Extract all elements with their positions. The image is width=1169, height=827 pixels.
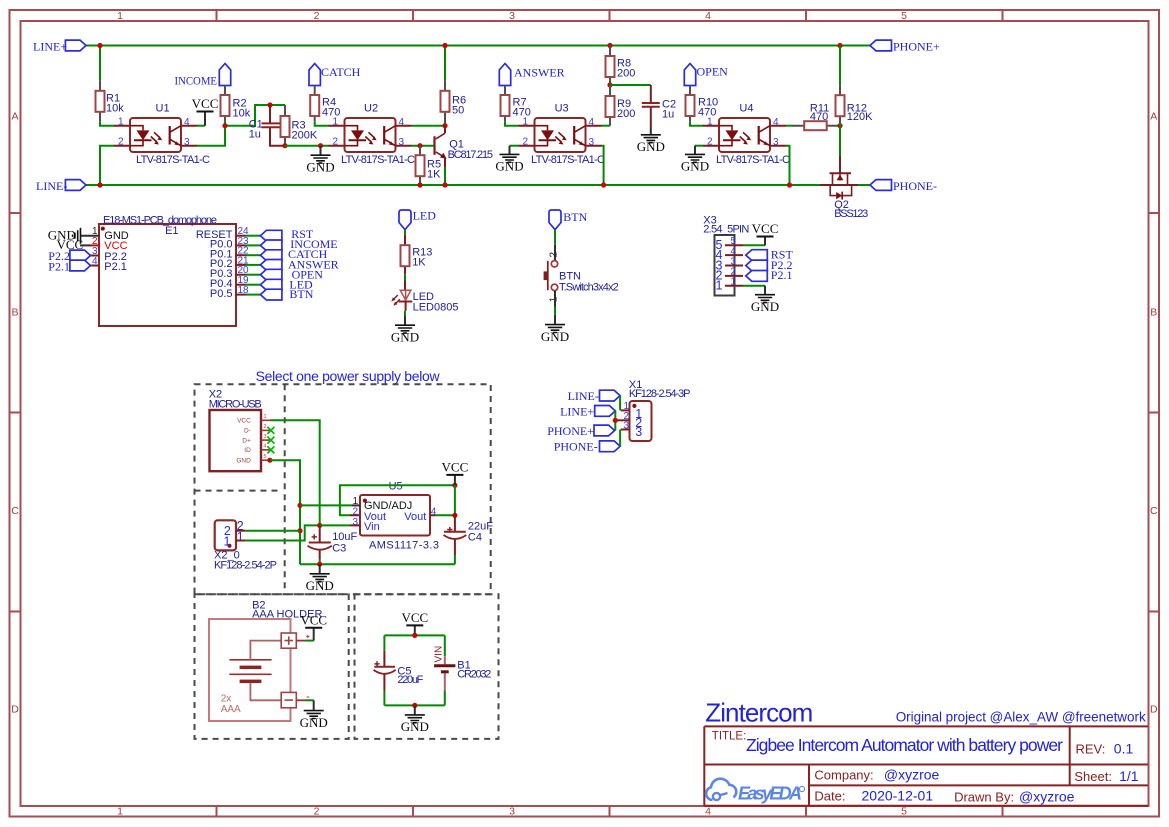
svg-text:B: B (11, 307, 18, 319)
pin 1 (X3) (716, 277, 743, 293)
wire R1 to U1 pin1 (100, 122, 115, 126)
flag PHONE- (X1) (554, 440, 620, 454)
junction VCC (B1/C5) (412, 633, 417, 638)
svg-text:1: 1 (716, 279, 723, 293)
flag OPEN (E1) (260, 268, 323, 282)
pin 2 (X1) (616, 411, 630, 422)
resistor R12 (836, 85, 874, 123)
flag PHONE+ (870, 40, 940, 54)
svg-text:U5: U5 (389, 481, 403, 493)
pin 3 P2.2 (E1) (86, 246, 127, 263)
wire LINE+/PHONE+ vertical (614, 411, 616, 431)
flag LINE+ (X1) (560, 405, 615, 419)
svg-text:P0.5: P0.5 (210, 288, 233, 300)
svg-text:3: 3 (635, 425, 642, 439)
junction VCC top (452, 483, 457, 488)
wire U3 pin3 down to LINE- (602, 146, 604, 185)
wire LINE+ rail (86, 45, 870, 47)
junction LINE+/R1col (97, 43, 102, 48)
pin 19 P0.4 (E1) (210, 275, 261, 290)
svg-text:U1: U1 (156, 103, 170, 115)
junction C4 top (452, 513, 457, 518)
svg-text:4: 4 (731, 246, 737, 257)
wire U4 pin4 to R11 (786, 125, 792, 127)
pin 24 RESET (E1) (196, 226, 261, 241)
svg-text:C: C (11, 505, 19, 517)
svg-text:18: 18 (238, 285, 250, 296)
capacitor C2 (642, 85, 676, 128)
svg-text:INCOME: INCOME (175, 73, 218, 87)
junction gnd wire / X2_0 pin2 (297, 528, 302, 533)
wire U4 pin2 to ground (695, 145, 703, 147)
power VCC (B1/C5) (401, 610, 428, 636)
dashed box B1/C5 (355, 594, 499, 739)
svg-text:1: 1 (237, 530, 244, 544)
no-connect X (X2) (267, 427, 274, 434)
svg-text:Company:: Company: (814, 767, 873, 782)
ground (B1/C5) (401, 705, 429, 734)
ground (power rail) (306, 564, 334, 593)
junction X1 pin2 (613, 418, 618, 423)
flag P2.1 (48, 259, 90, 273)
resistor R2 (221, 86, 251, 122)
svg-text:MICRO-USB: MICRO-USB (209, 399, 262, 411)
wire X2_0 pin2 (245, 530, 300, 532)
svg-text:200: 200 (617, 68, 635, 80)
junction collector node (442, 123, 447, 128)
pin 22 P0.1 (E1) (210, 246, 261, 261)
svg-text:2: 2 (314, 806, 320, 818)
junction below R2 (222, 123, 227, 128)
junction GND (B1/C5) (412, 703, 417, 708)
svg-text:1: 1 (117, 10, 123, 22)
svg-text:CATCH: CATCH (321, 65, 361, 79)
pin 5 GND (X2) (236, 454, 270, 464)
resistor R9 (606, 85, 636, 126)
flag LED (E1) (260, 278, 313, 292)
svg-text:2020-12-01: 2020-12-01 (862, 788, 934, 804)
pin 21 P0.2 (E1) (210, 255, 261, 270)
svg-text:VCC: VCC (237, 418, 251, 425)
ground (U4 pin2) (681, 146, 709, 174)
wire R4 to U2 pin1 (315, 122, 329, 126)
svg-text:ID: ID (244, 447, 251, 454)
svg-text:B: B (1150, 307, 1157, 319)
svg-text:Zintercom: Zintercom (705, 697, 813, 727)
svg-text:1: 1 (223, 535, 230, 549)
pin 4 ID (X2) (244, 444, 270, 454)
svg-text:BTN: BTN (563, 210, 587, 224)
junction C3/gnd rail (317, 562, 322, 567)
svg-text:1u: 1u (662, 109, 674, 121)
svg-text:2.54_5PIN: 2.54_5PIN (703, 224, 749, 236)
connector X3 2.54_5PIN (703, 214, 749, 295)
svg-text:C: C (1150, 505, 1158, 517)
wire C5 to bottom rail (383, 691, 385, 706)
wire bottom rail (B1/C5) (384, 704, 444, 706)
pin 1 (X2_0) (236, 540, 245, 542)
svg-text:D: D (11, 704, 19, 716)
svg-text:3: 3 (509, 806, 515, 818)
wire LED to ground (404, 311, 406, 316)
svg-text:1/1: 1/1 (1119, 768, 1139, 784)
svg-text:T.Switch3x4x2: T.Switch3x4x2 (559, 282, 619, 294)
pin 5 (X3) (716, 236, 743, 252)
flag PHONE+ (X1) (547, 424, 614, 438)
svg-text:1: 1 (117, 806, 123, 818)
capacitor C4 (444, 515, 494, 555)
svg-text:LINE+: LINE+ (560, 405, 594, 419)
svg-text:P2.1: P2.1 (48, 259, 70, 273)
svg-text:GND/ADJ: GND/ADJ (364, 500, 412, 512)
ground (LED) (391, 316, 419, 345)
capacitor C1 (249, 105, 283, 146)
junction LINE-/U1col (97, 182, 102, 187)
svg-text:5: 5 (901, 806, 907, 818)
svg-text:PHONE+: PHONE+ (547, 424, 594, 438)
svg-text:PHONE+: PHONE+ (893, 40, 940, 54)
resistor R4 (310, 86, 340, 122)
resistor R1 (96, 80, 125, 121)
svg-text:2: 2 (314, 10, 320, 22)
svg-text:4: 4 (264, 444, 267, 450)
junction X2 pin5 (267, 458, 272, 463)
flag P2.2 (X3) (746, 258, 793, 272)
power VCC (X3) (752, 221, 779, 245)
wire U2 pin3 to Q1 base (412, 145, 434, 147)
flag LINE- (36, 179, 86, 193)
junction LINE+/R12 (837, 43, 842, 48)
svg-text:A: A (1150, 111, 1157, 123)
svg-text:1: 1 (731, 277, 737, 288)
junction C1 top (267, 102, 272, 107)
connector X2_0 KF128-2.54-2P (214, 519, 277, 572)
wire Vin node to U5 pin3 (320, 524, 350, 526)
capacitor C5 (374, 651, 424, 691)
wire LINE+ to R6 (444, 46, 446, 81)
wire C3 to gnd rail (319, 559, 321, 564)
svg-text:LED: LED (413, 209, 437, 223)
junction gnd wire / U5 adj (297, 503, 302, 508)
svg-text:2: 2 (352, 506, 358, 517)
svg-text:PHONE-: PHONE- (554, 440, 598, 454)
svg-text:4: 4 (705, 806, 711, 818)
text Date (814, 788, 933, 804)
pin 2 VCC (E1) (57, 236, 128, 252)
terminal + (B2) (281, 633, 309, 648)
junction Q1/LINE- (442, 182, 447, 187)
junction U3pin3/LINE- (601, 182, 606, 187)
wire X3 pin5 to VCC (743, 244, 765, 246)
pin 20 P0.3 (E1) (210, 265, 261, 280)
flag LINE- (X1) (568, 389, 621, 403)
pin 1 (X1) (621, 401, 630, 412)
svg-text:3: 3 (623, 420, 629, 431)
battery B1 CR2032 (434, 646, 492, 691)
svg-text:E18-MS1-PCB_domophone: E18-MS1-PCB_domophone (103, 215, 217, 227)
title block (704, 726, 1148, 805)
wire node to C1/R3 (225, 105, 285, 126)
wire R2 to junction (224, 122, 226, 126)
flag CATCH (E1) (260, 247, 327, 261)
svg-text:10uF: 10uF (332, 531, 357, 543)
svg-text:LTV-817S-TA1-C: LTV-817S-TA1-C (716, 154, 790, 166)
svg-text:2: 2 (549, 252, 560, 258)
wire B1 branch (444, 635, 446, 656)
svg-text:BSS123: BSS123 (834, 208, 868, 220)
wire U1 pin2 to LINE- (100, 146, 115, 185)
wire C5 branch (383, 635, 385, 650)
wire PHONE- to pin3 (619, 430, 621, 447)
optocoupler U2 (329, 103, 416, 166)
flag LED (399, 209, 436, 230)
ground (BTN) (541, 315, 569, 344)
resistor R3 (281, 105, 318, 146)
resistor R8 (606, 46, 636, 81)
regulator U5 AMS1117-3.3 (350, 481, 439, 552)
svg-text:0.1: 0.1 (1114, 740, 1134, 756)
wire Q2 to PHONE- (858, 184, 870, 186)
svg-text:U2: U2 (364, 103, 378, 115)
ground (X3) (751, 286, 779, 314)
svg-text:U3: U3 (555, 103, 569, 115)
svg-text:4: 4 (705, 10, 711, 22)
svg-text:Drawn By:: Drawn By: (954, 789, 1014, 804)
wire LINE+ to R1 (99, 46, 101, 81)
svg-text:Zigbee Intercom Automator with: Zigbee Intercom Automator with battery p… (746, 735, 1063, 755)
svg-text:470: 470 (810, 111, 828, 123)
svg-text:1u: 1u (249, 129, 261, 141)
svg-text:2: 2 (264, 424, 267, 430)
wire Q1 emitter to LINE- (444, 167, 446, 185)
wire BTN flag to switch (554, 230, 556, 245)
pin 4 P2.1 (E1) (86, 256, 127, 273)
flag INCOME (175, 64, 231, 88)
no-connect X (X2) (267, 437, 274, 444)
pin 3 D+ (X2) (242, 434, 270, 444)
switch BTN T.Switch3x4x2 (544, 245, 619, 307)
flag BTN (E1) (260, 287, 313, 301)
wire U3 pin2 to ground (510, 145, 519, 147)
optocoupler U4 (703, 103, 790, 166)
junction LINE+/R6 (442, 43, 447, 48)
svg-text:E1: E1 (165, 225, 178, 237)
junction U4pin3/LINE- (787, 182, 792, 187)
svg-text:D+: D+ (242, 437, 251, 444)
diode LED LED0805 (391, 280, 458, 313)
junction R3/C1 bottom (282, 143, 287, 148)
wire U5 pin4 to C4 (435, 485, 455, 515)
optocoupler U1 (114, 103, 210, 166)
svg-text:1K: 1K (427, 168, 441, 180)
svg-text:AAA: AAA (221, 704, 241, 715)
svg-text:10k: 10k (106, 103, 124, 115)
svg-text:TITLE:: TITLE: (712, 731, 747, 743)
svg-text:A: A (11, 111, 18, 123)
svg-text:LTV-817S-TA1-C: LTV-817S-TA1-C (531, 154, 605, 166)
pin 3 (X3) (716, 256, 743, 272)
wire R12 to node (839, 123, 841, 126)
flag BTN (549, 210, 588, 230)
svg-text:C4: C4 (468, 531, 482, 543)
svg-text:Select one power supply below: Select one power supply below (256, 368, 441, 384)
module E1 E18-MS1-PCB_domophone (99, 215, 236, 327)
ground (B2) (300, 700, 328, 730)
junction R8/R9/C2 (607, 82, 612, 87)
wire C4 to gnd rail (454, 555, 456, 564)
dashed box B2 (195, 594, 349, 739)
junction gnd stub (318, 143, 323, 148)
ground (E1 pin1, rotated) (48, 228, 81, 244)
svg-text:3: 3 (264, 434, 267, 440)
junction R5/LINE- (417, 182, 422, 187)
transistor Q2 MOSFET (820, 156, 868, 220)
svg-text:ANSWER: ANSWER (514, 65, 565, 79)
wire gnd rail C1/R3 (285, 145, 329, 147)
wire U2 pin4 to R6 node (412, 125, 446, 127)
wire B1 to bottom rail (444, 691, 446, 706)
svg-text:Vout: Vout (404, 511, 426, 523)
flag LINE+ (33, 40, 86, 54)
wire LINE- rail (86, 184, 820, 186)
junction Vin node (317, 523, 322, 528)
resistor R10 (686, 86, 719, 122)
svg-text:3: 3 (731, 256, 737, 267)
power VCC (U1) (192, 96, 219, 126)
pin 4 (X3) (716, 246, 743, 262)
svg-text:GND: GND (236, 457, 251, 464)
text REV (1076, 740, 1134, 756)
wire node to C2 (610, 84, 651, 86)
wire + to VCC (306, 640, 314, 642)
wire LINE+ to R12 (839, 46, 841, 86)
flag RST (E1) (260, 227, 313, 241)
wire LINE- to pin1 (619, 396, 621, 411)
svg-text:KF128-2.54-3P: KF128-2.54-3P (629, 388, 691, 400)
svg-text:200K: 200K (292, 130, 318, 142)
flag CATCH (309, 64, 361, 86)
svg-text:Sheet:: Sheet: (1074, 769, 1112, 784)
pin 2 (X2_0) (236, 530, 245, 532)
wire R7 to U3 pin1 (505, 122, 519, 126)
text Drawn By (954, 788, 1075, 804)
svg-text:@xyzroe: @xyzroe (1019, 788, 1075, 804)
flag INCOME (E1) (260, 237, 337, 251)
flag P2.2 (48, 249, 90, 263)
wire R10 to U4 pin1 (690, 122, 704, 126)
dashed selection box (195, 384, 491, 594)
resistor R5 (416, 146, 442, 181)
svg-text:1: 1 (264, 414, 267, 420)
connector X2 MICRO-USB (209, 388, 262, 471)
svg-text:3: 3 (509, 10, 515, 22)
flag ANSWER (E1) (260, 258, 338, 272)
svg-text:BC817.215: BC817.215 (448, 149, 493, 161)
svg-text:EasyEDA: EasyEDA (738, 784, 802, 804)
wire U3 pin4 to R9 (602, 125, 611, 127)
resistor R11 horizontal (792, 102, 838, 130)
wire X2 pin1 VCC down (271, 420, 320, 525)
svg-text:D: D (1150, 704, 1158, 716)
power VCC (U5 out) (442, 459, 469, 485)
resistor R7 (501, 86, 531, 122)
svg-text:P2.1: P2.1 (771, 268, 793, 282)
svg-text:C3: C3 (332, 543, 346, 555)
battery holder B2 AAA (209, 599, 322, 721)
svg-text:120K: 120K (847, 111, 873, 123)
svg-text:200: 200 (617, 108, 635, 120)
pin 1 VCC (X2) (237, 414, 270, 424)
svg-text:LINE-: LINE- (36, 179, 67, 193)
wire LED flag to R13 (404, 230, 406, 235)
pin 23 P0.0 (E1) (210, 236, 261, 251)
svg-text:3: 3 (352, 517, 358, 528)
svg-text:Original project @Alex_AW @fre: Original project @Alex_AW @freenetwork (896, 709, 1146, 724)
no-connect X (X2) (267, 446, 274, 453)
power VCC (B2) (300, 612, 327, 640)
junction Q1 base / R5 (417, 143, 422, 148)
wire switch to ground (554, 307, 556, 315)
svg-text:5: 5 (264, 454, 267, 460)
wire top rail (B1/C5) (384, 634, 444, 636)
svg-text:1K: 1K (412, 256, 426, 268)
svg-text:CR2032: CR2032 (457, 669, 491, 681)
logo EasyEDA (706, 779, 805, 804)
wire R8 to node (609, 81, 611, 86)
ground (C2) (637, 128, 665, 155)
svg-text:D-: D- (244, 428, 251, 435)
resistor R13 (401, 234, 433, 274)
text Company (814, 766, 939, 782)
flag OPEN (684, 64, 728, 86)
svg-text:KF128-2.54-2P: KF128-2.54-2P (214, 559, 277, 571)
svg-text:50: 50 (452, 104, 464, 116)
svg-text:BTN: BTN (289, 287, 313, 301)
pin 1 GND (E1) (81, 226, 129, 242)
svg-text:LTV-817S-TA1-C: LTV-817S-TA1-C (136, 154, 210, 166)
wire X3 pin1 to ground (743, 285, 765, 287)
svg-text:220uF: 220uF (397, 674, 423, 686)
pin 3 (X1) (621, 420, 630, 431)
svg-text:1: 1 (352, 496, 358, 507)
ground (U3 pin2) (495, 146, 523, 174)
svg-text:LTV-817S-TA1-C: LTV-817S-TA1-C (341, 154, 415, 166)
wire - to GND (306, 699, 314, 701)
wire node to Q2 drain (839, 126, 841, 156)
optocoupler U3 (519, 103, 606, 166)
svg-text:U4: U4 (739, 103, 753, 115)
flag PHONE- (870, 179, 937, 193)
wire R6 to collector node (444, 122, 446, 126)
flag P2.1 (X3) (746, 268, 793, 282)
wire X2_0 pin1 (245, 525, 319, 540)
svg-text:Date:: Date: (814, 789, 845, 804)
wire U4 pin3 down to LINE- (786, 146, 790, 185)
svg-text:LED0805: LED0805 (413, 302, 459, 314)
transistor Q1 (435, 126, 494, 167)
svg-text:4: 4 (92, 256, 98, 267)
junction LINE+/R8 (607, 43, 612, 48)
pin 2 (X3) (716, 267, 743, 283)
svg-text:Vin: Vin (364, 521, 380, 533)
svg-text:REV:: REV: (1076, 741, 1106, 756)
flag RST (X3) (746, 247, 794, 261)
wire gnd rail (power) (300, 563, 455, 565)
capacitor C3 (308, 525, 358, 559)
terminal - (B2) (281, 692, 309, 707)
wire X2 pin5 GND down (270, 460, 300, 564)
wire U1 pin3 to node below R2 (197, 126, 225, 146)
